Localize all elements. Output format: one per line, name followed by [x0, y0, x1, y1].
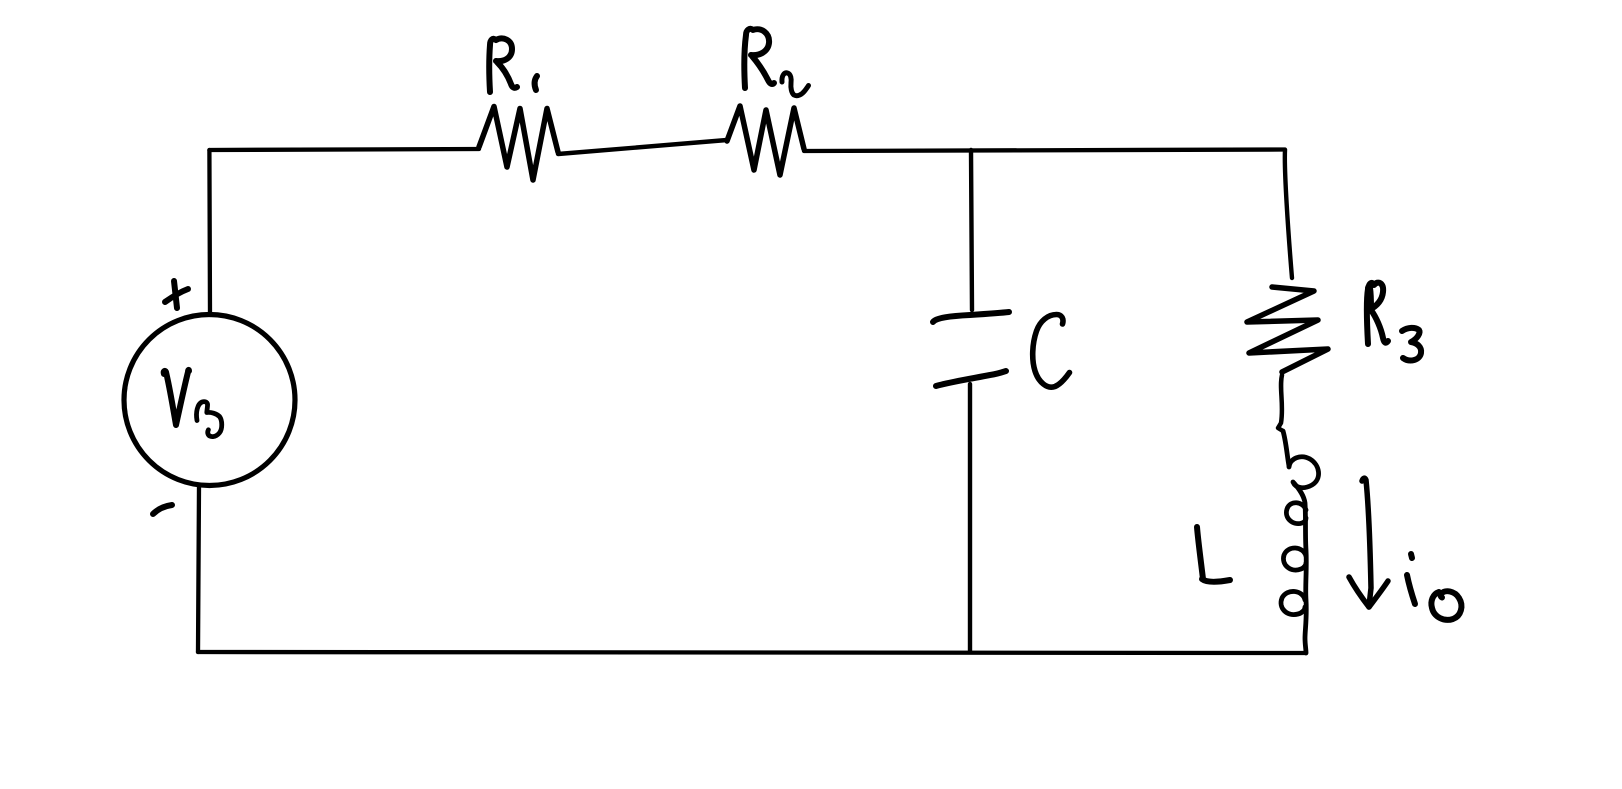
label C	[1033, 315, 1070, 388]
resistor R2	[727, 106, 804, 175]
wire R3 to inductor	[1278, 375, 1283, 431]
label R2	[744, 29, 808, 96]
label R1	[489, 38, 537, 92]
minus terminal	[153, 505, 172, 514]
label Vs	[164, 370, 222, 437]
wire right vertical upper	[1285, 150, 1292, 278]
current arrow i0	[1349, 478, 1388, 607]
wire top horizontal to R1	[209, 149, 479, 150]
wire from Vs top to top-left corner	[207, 150, 212, 315]
wire between R1 and R2	[558, 140, 727, 154]
capacitor C top plate	[933, 312, 1009, 322]
capacitor C bottom plate	[936, 371, 1006, 386]
label i0	[1407, 554, 1461, 620]
node junction cap branch	[971, 150, 972, 310]
label L	[1197, 527, 1230, 582]
wire R2 to top-right corner	[804, 150, 1285, 152]
wire bottom-left vertical to Vs	[198, 486, 199, 652]
wire bottom horizontal	[198, 652, 1306, 653]
wire capacitor to bottom	[968, 384, 972, 652]
inductor L	[1281, 431, 1319, 653]
resistor R3	[1247, 287, 1328, 372]
plus terminal	[165, 281, 188, 308]
label R3	[1367, 283, 1421, 361]
resistor R1	[479, 107, 558, 181]
voltage source Vs	[124, 315, 295, 486]
